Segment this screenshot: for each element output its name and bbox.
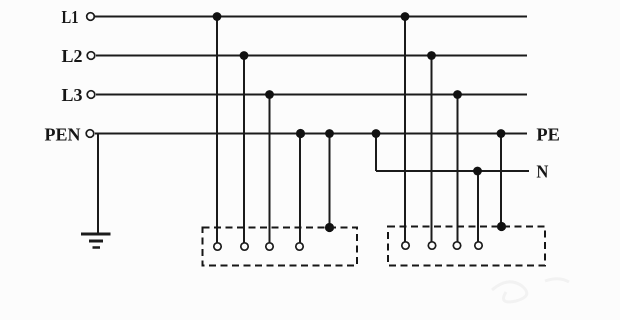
terminal L3 source bbox=[87, 91, 95, 99]
terminal load2 L3 bbox=[453, 242, 460, 249]
wire right PE drop bbox=[500, 134, 502, 227]
terminal load1 N bbox=[296, 243, 303, 250]
watermark bbox=[492, 279, 569, 302]
wire L2 bus bbox=[96, 55, 527, 57]
load box 2 bbox=[388, 227, 545, 266]
terminal L1 source bbox=[87, 13, 95, 21]
node left enclosure bond bbox=[325, 223, 334, 232]
wire right L2 drop bbox=[431, 56, 433, 242]
wire right L3 drop bbox=[457, 95, 459, 242]
wire right L1 drop bbox=[404, 17, 406, 242]
node PEN tap PE1 bbox=[325, 129, 334, 138]
terminal load1 L2 bbox=[241, 243, 248, 250]
wire left N drop bbox=[299, 134, 301, 243]
terminal load2 N bbox=[475, 242, 482, 249]
wire PEN to earth drop bbox=[97, 134, 99, 235]
wire right N drop bbox=[477, 171, 479, 242]
node right enclosure bond bbox=[497, 222, 506, 231]
wire L1 bus bbox=[95, 16, 527, 18]
wire left L1 drop bbox=[216, 17, 218, 243]
svg-text:N: N bbox=[536, 161, 548, 181]
terminal load2 L2 bbox=[428, 242, 435, 249]
node L2 right tap bbox=[427, 51, 436, 60]
wire left L3 drop bbox=[269, 95, 271, 243]
wire L3 bus bbox=[96, 94, 527, 96]
svg-text:L1: L1 bbox=[62, 7, 79, 27]
terminal L2 source bbox=[87, 52, 95, 60]
node PEN split bbox=[372, 129, 381, 138]
svg-text:L2: L2 bbox=[62, 46, 83, 66]
wire left L2 drop bbox=[243, 56, 245, 243]
svg-text:L3: L3 bbox=[62, 85, 83, 105]
node L3 left tap bbox=[265, 90, 274, 99]
node PE tap bbox=[497, 129, 506, 138]
load box 1 bbox=[203, 228, 358, 266]
node L1 left tap bbox=[213, 12, 222, 21]
ground electrode symbol bbox=[81, 234, 111, 248]
wire left PE drop bbox=[329, 134, 331, 228]
wire PEN to N drop bbox=[375, 134, 377, 172]
node L3 right tap bbox=[453, 90, 462, 99]
node PEN tap N1 bbox=[296, 129, 305, 138]
terminal load1 L3 bbox=[266, 243, 273, 250]
node N tap bbox=[473, 167, 482, 176]
node L2 left tap bbox=[240, 51, 249, 60]
node L1 right tap bbox=[401, 12, 410, 21]
terminal PEN source bbox=[86, 130, 94, 138]
wire N bus bbox=[376, 170, 529, 172]
svg-text:PEN: PEN bbox=[45, 124, 81, 144]
terminal load1 L1 bbox=[214, 243, 221, 250]
terminal load2 L1 bbox=[402, 242, 409, 249]
wire PEN/PE bus bbox=[95, 133, 527, 135]
svg-text:PE: PE bbox=[536, 124, 560, 144]
